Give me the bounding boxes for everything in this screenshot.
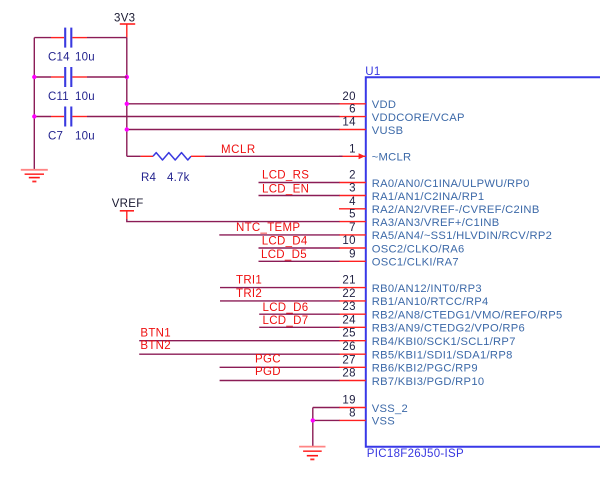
svg-text:RB2/AN8/CTEDG1/VMO/REFO/RP5: RB2/AN8/CTEDG1/VMO/REFO/RP5 — [372, 310, 563, 322]
capacitor C7 right pin (red) — [72, 116, 87, 118]
pin 8 VSS stub — [339, 419, 366, 421]
svg-text:RB0/AN12/INT0/RP3: RB0/AN12/INT0/RP3 — [372, 283, 482, 295]
svg-text:RB4/KBI0/SCK1/SCL1/RP7: RB4/KBI0/SCK1/SCL1/RP7 — [372, 336, 516, 348]
svg-text:19: 19 — [342, 395, 355, 407]
capacitor C7 left pin (red) — [51, 116, 64, 118]
capacitor C14 right pin (red) — [72, 37, 87, 39]
pin 20 VDD stub — [339, 103, 366, 105]
svg-text:RA3/AN3/VREF+/C1INB: RA3/AN3/VREF+/C1INB — [372, 217, 500, 229]
svg-text:LCD_D4: LCD_D4 — [262, 236, 308, 248]
wire VSS vertical to ground — [312, 408, 314, 447]
svg-text:3V3: 3V3 — [114, 13, 135, 25]
svg-text:RA2/AN2/VREF-/CVREF/C2INB: RA2/AN2/VREF-/CVREF/C2INB — [372, 204, 540, 216]
pin 22 RB1/AN10/RTCC/RP4 stub — [339, 300, 366, 302]
wire net NTC_TEMP — [219, 234, 339, 236]
svg-text:~MCLR: ~MCLR — [372, 152, 412, 164]
wire net LCD_D4 — [259, 247, 340, 249]
junction 3V3/C11 — [125, 75, 129, 79]
svg-text:U1: U1 — [365, 66, 380, 78]
capacitor C14 left lead wire — [34, 37, 51, 39]
junction 3V3/VDD — [125, 102, 129, 106]
svg-text:MCLR: MCLR — [221, 144, 256, 156]
wire R4 to MCLR pin1 — [205, 155, 343, 157]
svg-text:3: 3 — [349, 183, 356, 195]
pin 4 RA2/AN2/VREF-/CVREF/C2INB stub — [339, 208, 366, 210]
wire net BTN1 — [139, 340, 339, 342]
pin 28 RB7/KBI3/PGD/RP10 stub — [339, 380, 366, 382]
svg-text:10u: 10u — [75, 91, 95, 103]
svg-text:RA1/AN1/C2INA/RP1: RA1/AN1/C2INA/RP1 — [372, 191, 485, 203]
svg-text:6: 6 — [349, 104, 356, 116]
svg-text:VUSB: VUSB — [372, 125, 404, 137]
svg-text:1: 1 — [349, 143, 356, 155]
pin 7 RA5/AN4/~SS1/HLVDIN/RCV/RP2 stub — [339, 234, 366, 236]
resistor R4 left pin (red) — [141, 155, 153, 157]
svg-text:RB5/KBI1/SDI1/SDA1/RP8: RB5/KBI1/SDI1/SDA1/RP8 — [372, 350, 513, 362]
junction VSS — [311, 418, 315, 422]
svg-text:20: 20 — [342, 91, 355, 103]
svg-text:R4: R4 — [141, 172, 157, 184]
wire VREF terminal drop (red) — [126, 211, 128, 219]
wire 3V3 rail corner to R4 — [127, 155, 141, 157]
resistor R4 right pin (red) — [191, 155, 205, 157]
wire net LCD_D7 — [259, 326, 339, 328]
svg-text:BTN2: BTN2 — [140, 340, 171, 352]
svg-text:VDDCORE/VCAP: VDDCORE/VCAP — [372, 112, 465, 124]
pin 9 OSC1/CLKI/RA7 stub — [339, 260, 366, 262]
wire C7 right lead to VDDCORE pin6 — [87, 116, 340, 118]
wire VSS_2 pin19 — [313, 407, 340, 409]
wire C11 right lead to 3V3 rail — [87, 76, 127, 78]
svg-text:NTC_TEMP: NTC_TEMP — [236, 222, 300, 234]
wire net LCD_D5 — [259, 260, 340, 262]
svg-text:RB1/AN10/RTCC/RP4: RB1/AN10/RTCC/RP4 — [372, 296, 489, 308]
pin 24 RB3/AN9/CTEDG2/VPO/RP6 stub — [339, 326, 366, 328]
wire net TRI1 — [220, 287, 340, 289]
svg-text:10u: 10u — [75, 130, 95, 142]
svg-text:22: 22 — [342, 288, 355, 300]
wire net PGC — [220, 366, 340, 368]
svg-text:TRI1: TRI1 — [236, 275, 262, 287]
wire net BTN2 — [139, 353, 339, 355]
resistor R4 zigzag — [153, 153, 191, 160]
svg-text:PGD: PGD — [255, 366, 281, 378]
wire net PGD — [220, 380, 340, 382]
svg-text:LCD_D6: LCD_D6 — [263, 302, 309, 314]
pin 25 RB4/KBI0/SCK1/SCL1/RP7 stub — [339, 340, 366, 342]
svg-text:RA0/AN0/C1INA/ULPWU/RP0: RA0/AN0/C1INA/ULPWU/RP0 — [372, 178, 530, 190]
svg-text:24: 24 — [342, 314, 356, 326]
svg-text:21: 21 — [342, 275, 355, 287]
svg-text:C11: C11 — [48, 91, 69, 103]
svg-text:LCD_D7: LCD_D7 — [263, 315, 309, 327]
wire 3V3 terminal drop (red) — [126, 24, 128, 38]
pin 3 RA1/AN1/C2INA/RP1 stub — [339, 195, 366, 197]
svg-text:PIC18F26J50-ISP: PIC18F26J50-ISP — [367, 448, 464, 460]
svg-text:RB3/AN9/CTEDG2/VPO/RP6: RB3/AN9/CTEDG2/VPO/RP6 — [372, 323, 525, 335]
junction gnd-rail/C11 — [32, 75, 36, 79]
ground symbol (VSS) — [299, 446, 325, 448]
wire VUSB pin14 to 3V3 rail — [127, 129, 340, 131]
svg-text:LCD_EN: LCD_EN — [262, 184, 309, 196]
svg-text:14: 14 — [342, 117, 356, 129]
wire C14 right lead to 3V3 rail — [87, 37, 127, 39]
svg-text:VSS_2: VSS_2 — [372, 403, 408, 415]
pin 10 OSC2/CLKO/RA6 stub — [339, 247, 366, 249]
wire VREF to RA3 pin5 — [127, 219, 340, 222]
svg-text:7: 7 — [349, 222, 356, 234]
pin 14 VUSB stub — [339, 129, 366, 131]
svg-text:BTN1: BTN1 — [140, 328, 171, 340]
svg-text:8: 8 — [349, 407, 356, 419]
svg-text:LCD_D5: LCD_D5 — [261, 249, 307, 261]
capacitor C11 plates — [64, 67, 66, 87]
svg-text:27: 27 — [342, 354, 355, 366]
capacitor C11 right pin (red) — [72, 76, 87, 78]
svg-text:9: 9 — [349, 248, 356, 260]
capacitor C14 plates — [64, 28, 66, 48]
svg-text:VDD: VDD — [372, 99, 397, 111]
svg-text:C7: C7 — [48, 130, 63, 142]
ground symbol (capacitor rail) — [21, 169, 48, 171]
svg-text:TRI2: TRI2 — [236, 288, 262, 300]
svg-text:25: 25 — [342, 328, 355, 340]
svg-text:LCD_RS: LCD_RS — [262, 169, 309, 181]
capacitor C7 plates — [64, 107, 66, 127]
capacitor C7 left lead wire — [34, 116, 51, 118]
IC U1 PIC18F26J50 body — [366, 77, 600, 447]
pin 1 MCLR input arrowhead — [359, 153, 366, 159]
svg-text:OSC2/CLKO/RA6: OSC2/CLKO/RA6 — [372, 243, 465, 255]
wire net TRI2 — [220, 300, 340, 302]
power terminal 3V3 bar — [120, 23, 135, 25]
pin 1 ~MCLR stub — [339, 155, 366, 157]
svg-text:5: 5 — [349, 209, 356, 221]
pin 26 RB5/KBI1/SDI1/SDA1/RP8 stub — [339, 353, 366, 355]
svg-text:OSC1/CLKI/RA7: OSC1/CLKI/RA7 — [372, 257, 459, 269]
wire net LCD_D6 — [259, 313, 339, 315]
wire VDD pin20 to 3V3 rail — [127, 103, 340, 105]
capacitor C11 left lead wire — [34, 76, 51, 78]
pin 5 RA3/AN3/VREF+/C1INB stub — [339, 221, 366, 223]
svg-text:VREF: VREF — [112, 198, 144, 210]
wire capacitor ground rail (left) — [33, 38, 35, 170]
svg-text:28: 28 — [342, 368, 355, 380]
svg-text:23: 23 — [342, 301, 355, 313]
svg-text:C14: C14 — [48, 51, 70, 63]
wire VSS pin8 — [313, 419, 340, 421]
pin 6 VDDCORE/VCAP stub — [339, 116, 366, 118]
pin 19 VSS_2 stub — [339, 407, 366, 409]
svg-text:26: 26 — [342, 341, 355, 353]
capacitor C14 left pin (red) — [51, 37, 64, 39]
svg-text:VSS: VSS — [372, 416, 395, 428]
pin 23 RB2/AN8/CTEDG1/VMO/REFO/RP5 stub — [339, 313, 366, 315]
svg-text:PGC: PGC — [255, 354, 281, 366]
svg-text:RB6/KBI2/PGC/RP9: RB6/KBI2/PGC/RP9 — [372, 363, 478, 375]
svg-text:2: 2 — [349, 170, 356, 182]
wire net LCD_EN — [259, 195, 340, 197]
capacitor C11 left pin (red) — [51, 76, 64, 78]
svg-text:4: 4 — [349, 196, 356, 208]
svg-text:10u: 10u — [75, 51, 95, 63]
pin 2 RA0/AN0/C1INA/ULPWU/RP0 stub — [339, 182, 366, 184]
pin 21 RB0/AN12/INT0/RP3 stub — [339, 287, 366, 289]
junction 3V3/VUSB — [125, 127, 129, 131]
power terminal VREF bar — [120, 210, 134, 212]
svg-text:10: 10 — [342, 235, 355, 247]
pin 27 RB6/KBI2/PGC/RP9 stub — [339, 366, 366, 368]
wire 3V3 vertical rail — [126, 38, 128, 157]
svg-text:4.7k: 4.7k — [167, 172, 190, 184]
wire net LCD_RS — [259, 182, 340, 184]
svg-text:RB7/KBI3/PGD/RP10: RB7/KBI3/PGD/RP10 — [372, 376, 485, 388]
junction gnd-rail/C7 — [32, 114, 36, 118]
svg-text:RA5/AN4/~SS1/HLVDIN/RCV/RP2: RA5/AN4/~SS1/HLVDIN/RCV/RP2 — [372, 230, 552, 242]
